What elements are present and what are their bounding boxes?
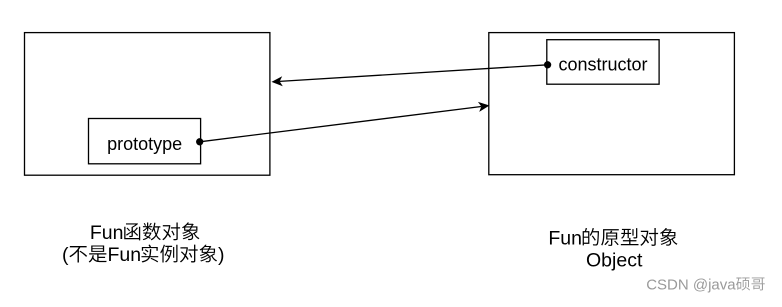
svg-text:Fun: Fun xyxy=(107,244,141,266)
svg-text:Fun: Fun xyxy=(90,222,124,244)
svg-text:Object: Object xyxy=(586,250,643,272)
svg-text:): ) xyxy=(218,244,225,266)
svg-text:(: ( xyxy=(62,244,69,266)
svg-text:constructor: constructor xyxy=(559,55,648,75)
svg-text:prototype: prototype xyxy=(107,134,182,154)
svg-text:CSDN @java: CSDN @java xyxy=(646,276,736,293)
svg-text:Fun: Fun xyxy=(548,227,582,249)
